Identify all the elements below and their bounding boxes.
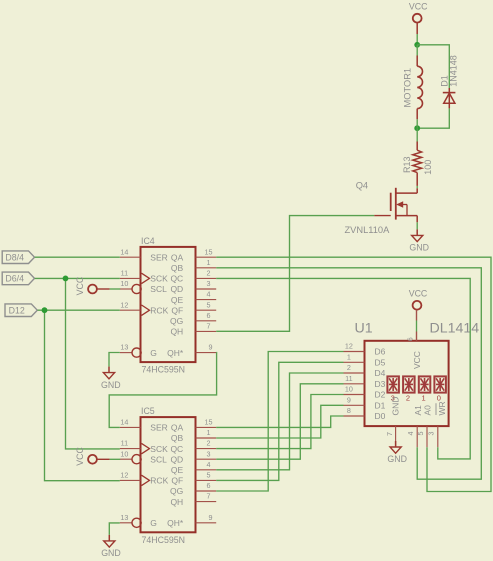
svg-text:74HC595N: 74HC595N — [142, 365, 186, 375]
svg-text:11: 11 — [121, 439, 128, 448]
svg-text:12: 12 — [345, 342, 353, 351]
svg-text:QE: QE — [171, 295, 184, 305]
svg-text:1: 1 — [207, 428, 211, 437]
svg-text:D4: D4 — [375, 368, 386, 378]
svg-text:12: 12 — [120, 471, 128, 480]
svg-text:A0: A0 — [423, 405, 433, 416]
svg-text:11: 11 — [345, 374, 352, 383]
svg-text:GND: GND — [391, 397, 401, 416]
svg-text:6: 6 — [207, 481, 211, 490]
svg-text:U1: U1 — [355, 320, 373, 336]
svg-text:VCC: VCC — [75, 276, 85, 295]
svg-text:SER: SER — [150, 423, 167, 433]
svg-text:7: 7 — [207, 492, 211, 501]
svg-text:3: 3 — [427, 432, 436, 436]
svg-text:4: 4 — [207, 290, 211, 299]
svg-text:IC4: IC4 — [141, 236, 155, 246]
svg-text:2: 2 — [207, 439, 211, 448]
svg-text:DL1414: DL1414 — [430, 320, 480, 336]
svg-text:VCC: VCC — [409, 289, 428, 299]
svg-text:5: 5 — [416, 432, 425, 436]
svg-text:6: 6 — [405, 337, 414, 341]
svg-text:SCK: SCK — [150, 274, 168, 284]
svg-text:QH*: QH* — [167, 348, 184, 358]
svg-text:D6: D6 — [375, 347, 386, 357]
svg-text:100: 100 — [423, 160, 433, 175]
svg-text:QC: QC — [170, 444, 183, 454]
svg-text:RCK: RCK — [150, 305, 168, 315]
svg-text:Q4: Q4 — [356, 181, 368, 191]
svg-text:VCC: VCC — [75, 446, 85, 465]
svg-text:VCC: VCC — [409, 2, 428, 12]
svg-text:10: 10 — [120, 449, 128, 458]
svg-text:1: 1 — [422, 394, 426, 403]
svg-text:QD: QD — [170, 454, 183, 464]
svg-text:14: 14 — [120, 247, 128, 256]
svg-text:5: 5 — [207, 471, 211, 480]
svg-text:13: 13 — [120, 513, 128, 522]
svg-text:2: 2 — [347, 363, 351, 372]
svg-text:QF: QF — [171, 305, 183, 315]
svg-text:9: 9 — [347, 395, 351, 404]
svg-text:GND: GND — [101, 380, 121, 390]
svg-text:3: 3 — [207, 449, 211, 458]
svg-text:SCL: SCL — [150, 284, 167, 294]
svg-text:9: 9 — [209, 513, 213, 522]
svg-text:RCK: RCK — [150, 476, 168, 486]
svg-text:QG: QG — [170, 486, 183, 496]
svg-text:A1: A1 — [413, 405, 423, 416]
svg-text:6: 6 — [207, 311, 211, 320]
svg-text:D1: D1 — [375, 401, 386, 411]
svg-text:D3: D3 — [375, 379, 386, 389]
svg-text:10: 10 — [120, 279, 128, 288]
svg-text:SER: SER — [150, 252, 167, 262]
svg-text:MOTOR1: MOTOR1 — [402, 68, 412, 108]
svg-text:13: 13 — [120, 343, 128, 352]
svg-text:QF: QF — [171, 476, 183, 486]
svg-text:IC5: IC5 — [141, 406, 155, 416]
svg-text:3: 3 — [207, 279, 211, 288]
svg-text:2: 2 — [207, 269, 211, 278]
svg-text:15: 15 — [205, 418, 213, 427]
svg-text:8: 8 — [347, 406, 351, 415]
svg-text:10: 10 — [345, 385, 353, 394]
svg-text:15: 15 — [205, 247, 213, 256]
svg-text:G: G — [150, 348, 157, 358]
svg-text:QD: QD — [170, 284, 183, 294]
svg-text:VCC: VCC — [412, 351, 422, 369]
svg-text:D6/4: D6/4 — [5, 274, 24, 284]
svg-text:D2: D2 — [375, 390, 386, 400]
svg-text:R13: R13 — [402, 156, 412, 173]
svg-text:D12: D12 — [9, 305, 25, 315]
svg-text:SCL: SCL — [150, 454, 167, 464]
svg-text:GND: GND — [387, 454, 407, 464]
svg-text:QB: QB — [171, 433, 184, 443]
svg-text:QH: QH — [170, 327, 183, 337]
svg-text:GND: GND — [101, 548, 121, 558]
svg-text:D8/4: D8/4 — [5, 252, 24, 262]
svg-text:1N4148: 1N4148 — [448, 55, 458, 87]
svg-text:QA: QA — [171, 423, 184, 433]
svg-text:QC: QC — [170, 274, 183, 284]
svg-text:G: G — [150, 518, 157, 528]
svg-text:D0: D0 — [375, 411, 386, 421]
svg-text:WR: WR — [437, 401, 447, 415]
svg-text:0: 0 — [437, 394, 441, 403]
svg-text:GND: GND — [409, 243, 429, 253]
svg-text:QA: QA — [171, 252, 184, 262]
svg-text:5: 5 — [207, 300, 211, 309]
svg-text:7: 7 — [385, 432, 394, 436]
svg-text:11: 11 — [121, 269, 128, 278]
svg-text:SCK: SCK — [150, 444, 168, 454]
svg-text:9: 9 — [209, 343, 213, 352]
svg-text:14: 14 — [120, 418, 128, 427]
svg-text:7: 7 — [207, 322, 211, 331]
svg-text:QH: QH — [170, 497, 183, 507]
svg-text:QH*: QH* — [167, 518, 184, 528]
svg-text:2: 2 — [406, 394, 410, 403]
svg-text:74HC595N: 74HC595N — [142, 535, 186, 545]
svg-text:12: 12 — [120, 300, 128, 309]
svg-text:QE: QE — [171, 465, 184, 475]
svg-text:1: 1 — [207, 258, 211, 267]
svg-text:1: 1 — [347, 352, 351, 361]
svg-text:4: 4 — [406, 432, 415, 436]
svg-text:4: 4 — [207, 460, 211, 469]
svg-text:D5: D5 — [375, 358, 386, 368]
svg-text:ZVNL110A: ZVNL110A — [345, 225, 391, 235]
svg-text:QB: QB — [171, 263, 184, 273]
svg-text:QG: QG — [170, 316, 183, 326]
